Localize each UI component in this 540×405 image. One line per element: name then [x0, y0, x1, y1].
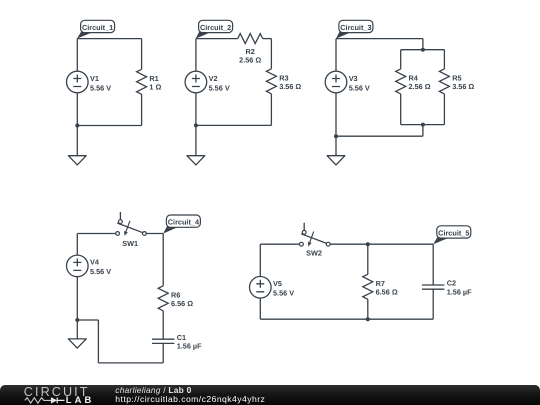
wire C1 top	[77, 38, 141, 40]
svg-text:3.56 Ω: 3.56 Ω	[452, 82, 474, 91]
label C2 value	[447, 279, 472, 297]
wire R4 upper	[400, 50, 402, 69]
wire C3 to ground	[335, 136, 337, 156]
svg-text:SW2: SW2	[306, 249, 322, 258]
svg-text:1.56 µF: 1.56 µF	[447, 287, 472, 296]
label R4 value	[409, 74, 431, 92]
wire C2 bottom	[196, 124, 272, 126]
wire C4 bottom	[98, 362, 163, 364]
logo diode	[51, 398, 64, 404]
wire C3 left lower	[335, 93, 337, 136]
node junction C3 top rail	[421, 48, 425, 52]
switch SW2	[300, 223, 331, 247]
wire C2 right lower	[270, 94, 272, 126]
logo resistor zigzag	[25, 398, 52, 403]
svg-text:V2: V2	[209, 74, 218, 83]
voltage source V4	[67, 255, 89, 277]
node flag Circuit_4	[163, 215, 200, 234]
resistor R5	[439, 69, 449, 94]
wire C3 top drop	[422, 39, 424, 50]
CircuitLab logo	[0, 380, 110, 405]
ground C2	[187, 156, 205, 165]
footer bar	[0, 385, 540, 405]
voltage source V5	[249, 277, 271, 299]
wire C5 top left	[260, 243, 299, 245]
wire C1 to ground	[76, 126, 78, 156]
wire R7 upper	[367, 244, 369, 274]
label V5 value	[273, 279, 294, 298]
svg-text:5.56 V: 5.56 V	[349, 83, 370, 92]
label R6 value	[171, 291, 193, 309]
resistor R2	[238, 34, 263, 44]
svg-text:Circuit_5: Circuit_5	[438, 228, 469, 237]
voltage source V3	[325, 71, 347, 93]
node flag Circuit_5	[433, 226, 471, 244]
svg-text:SW1: SW1	[122, 239, 138, 248]
ground C1	[68, 156, 86, 165]
wire C3 left upper	[335, 39, 337, 72]
svg-text:Circuit_3: Circuit_3	[340, 23, 371, 32]
wire R4 lower	[400, 94, 402, 125]
label R2 value	[239, 47, 261, 64]
svg-text:1.56 µF: 1.56 µF	[177, 342, 202, 351]
wire C2 top right	[263, 38, 272, 40]
label V1 value	[90, 74, 111, 93]
wire C3 parallel bottom rail	[401, 124, 445, 126]
wire C4 right upper	[162, 234, 164, 286]
svg-text:1 Ω: 1 Ω	[149, 83, 161, 92]
wire C1 down	[162, 344, 164, 363]
svg-text:V1: V1	[90, 74, 99, 83]
wire C4 to ground	[76, 320, 78, 339]
node junction C2	[194, 123, 198, 127]
node junction C4	[75, 318, 79, 322]
footer credit text	[115, 385, 191, 395]
wire R5 lower	[443, 94, 445, 125]
wire C2 top left	[196, 38, 238, 40]
svg-text:2.56 Ω: 2.56 Ω	[239, 55, 261, 64]
node junction C5 top	[366, 242, 370, 246]
resistor R1	[137, 69, 147, 94]
svg-text:5.56 V: 5.56 V	[90, 267, 111, 276]
wire C3 bottom drop	[422, 125, 424, 137]
wire C1 right lower	[141, 94, 143, 125]
wire C1 left upper	[76, 39, 78, 72]
label R3 value	[279, 74, 301, 92]
wire C5 bottom	[260, 318, 433, 320]
svg-text:6.56 Ω: 6.56 Ω	[171, 299, 193, 308]
svg-text:V4: V4	[90, 258, 100, 267]
svg-text:5.56 V: 5.56 V	[209, 83, 230, 92]
node flag Circuit_1	[77, 20, 115, 38]
wire C4 junction to step	[77, 319, 98, 321]
switch SW1	[116, 212, 147, 236]
wire C1 left lower	[76, 93, 78, 126]
svg-text:6.56 Ω: 6.56 Ω	[376, 288, 398, 297]
wire C4 left lower	[76, 277, 78, 320]
wire C5 left upper	[259, 244, 261, 276]
wire R5 upper	[443, 50, 445, 69]
wire C5 right upper	[432, 244, 434, 285]
label C1 value	[177, 333, 202, 351]
svg-text:Circuit_2: Circuit_2	[200, 23, 231, 32]
node junction C3	[334, 134, 338, 138]
wire C4 left upper	[76, 234, 78, 256]
label V2 value	[209, 74, 230, 93]
ground C4	[68, 339, 86, 348]
voltage source V2	[185, 71, 207, 93]
wire R6 to C1	[162, 311, 164, 339]
capacitor C2	[422, 285, 444, 289]
wire C3 bottom	[336, 135, 423, 137]
node junction C5 bottom	[366, 317, 370, 321]
svg-text:V3: V3	[349, 74, 358, 83]
wire C4 bottom step	[97, 320, 99, 363]
svg-text:3.56 Ω: 3.56 Ω	[279, 82, 301, 91]
wire C3 parallel top rail	[401, 49, 445, 51]
node flag Circuit_3	[336, 20, 373, 38]
node junction C1	[75, 124, 79, 128]
wire C5 left lower	[259, 298, 261, 319]
wire C2 to ground	[195, 125, 197, 155]
label R1 value	[149, 74, 161, 92]
resistor R7	[363, 274, 373, 299]
label V4 value	[90, 258, 111, 277]
footer url	[115, 394, 265, 404]
label R7 value	[376, 279, 398, 297]
resistor R3	[266, 69, 276, 94]
label R5 value	[452, 74, 474, 92]
wire C2 left upper	[195, 39, 197, 72]
svg-text:2.56 Ω: 2.56 Ω	[409, 82, 431, 91]
capacitor C1	[152, 339, 174, 343]
label V3 value	[349, 74, 370, 93]
wire C2 right upper	[270, 39, 272, 69]
wire R7 lower	[367, 299, 369, 319]
wire C2 left lower	[195, 93, 197, 126]
wire C4 top right	[146, 233, 163, 235]
voltage source V1	[67, 71, 89, 93]
svg-text:5.56 V: 5.56 V	[273, 289, 294, 298]
ground C3	[327, 156, 345, 165]
svg-text:5.56 V: 5.56 V	[90, 83, 111, 92]
svg-text:LAB: LAB	[66, 394, 95, 405]
node flag Circuit_2	[196, 20, 233, 38]
resistor R4	[396, 69, 406, 94]
wire C4 top left	[77, 233, 115, 235]
resistor R6	[158, 286, 168, 311]
wire C5 top right	[330, 243, 433, 245]
wire C5 right lower	[432, 289, 434, 319]
wire C3 top	[336, 38, 423, 40]
svg-text:Circuit_4: Circuit_4	[168, 217, 200, 226]
node junction C3 bottom rail	[421, 123, 425, 127]
svg-text:Circuit_1: Circuit_1	[82, 23, 113, 32]
wire C1 bottom	[77, 125, 141, 127]
svg-text:V5: V5	[273, 279, 282, 288]
wire C1 right upper	[141, 39, 143, 70]
